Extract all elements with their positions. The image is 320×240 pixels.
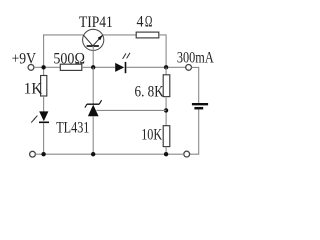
wire TL431 cathode lead xyxy=(92,67,94,104)
resistor R5 10K xyxy=(163,126,170,147)
junction divider bottom at rail xyxy=(164,152,168,156)
junction +9V node xyxy=(41,65,45,69)
wire 10K to bottom rail xyxy=(165,147,167,155)
resistor R1 1K xyxy=(41,76,47,97)
junction reference node xyxy=(164,108,168,112)
wire output node to 6.8K resistor xyxy=(165,67,167,75)
wire transistor base lead xyxy=(92,46,94,67)
junction TL431 anode at rail xyxy=(91,152,95,156)
resistor R3 500 ohm xyxy=(60,64,82,70)
junction output node xyxy=(164,65,168,69)
wire LED D1 to output node and 300mA terminal xyxy=(126,66,185,68)
svg-text:TL431: TL431 xyxy=(56,120,89,137)
transistor Q1 TIP41 xyxy=(83,29,104,50)
node 300mA output terminal xyxy=(186,65,192,71)
junction base node xyxy=(91,65,95,69)
svg-text:4: 4 xyxy=(137,14,144,31)
wire LED D2 to bottom rail xyxy=(43,123,45,154)
wire TL431 anode to bottom rail xyxy=(92,116,94,154)
wire 4 ohm resistor to output node corner xyxy=(159,35,166,67)
node bottom-right terminal xyxy=(184,151,190,157)
resistor R4 6.8K xyxy=(163,75,170,97)
wire emitter to 4 ohm resistor xyxy=(103,34,136,36)
svg-text:TIP41: TIP41 xyxy=(79,14,113,31)
svg-text:+9V: +9V xyxy=(12,51,37,68)
svg-text:Ω: Ω xyxy=(145,14,153,31)
wire battery to bottom right corner xyxy=(190,110,199,155)
wire 1K to LED D2 xyxy=(43,96,45,112)
node +9V input terminal xyxy=(28,65,34,71)
wire from +9V terminal to 500 ohm resistor xyxy=(34,66,61,68)
wire bottom rail xyxy=(35,153,183,155)
wire left rail vertical (+9V rail) xyxy=(43,34,45,75)
TL431 U1 shunt regulator xyxy=(85,100,102,116)
svg-text:1K: 1K xyxy=(24,80,43,97)
LED D2 (indicator, pointing down) xyxy=(31,111,49,122)
wire 500 ohm to LED D1 xyxy=(82,66,115,68)
svg-text:10K: 10K xyxy=(141,127,162,144)
LED D1 (pointing right) xyxy=(115,53,130,73)
node bottom-left terminal xyxy=(30,151,36,157)
svg-text:300mA: 300mA xyxy=(177,49,214,66)
wire 300mA terminal to battery xyxy=(192,67,199,103)
wire TL431 reference to divider node xyxy=(97,109,167,111)
junction bottom left xyxy=(41,152,45,156)
resistor R2 4 ohm xyxy=(136,32,159,38)
svg-text:500Ω: 500Ω xyxy=(53,51,85,68)
svg-text:6. 8K: 6. 8K xyxy=(135,84,165,101)
battery B1 xyxy=(192,104,208,108)
wire 6.8K to reference node xyxy=(165,97,167,126)
wire top rail from +9V rail corner to transistor collector xyxy=(43,34,84,36)
